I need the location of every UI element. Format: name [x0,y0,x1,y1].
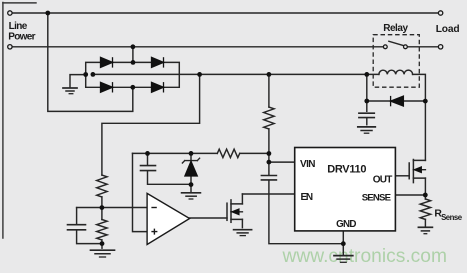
svg-text:GND: GND [336,219,356,230]
svg-text:VIN: VIN [300,159,316,170]
svg-text:DRV110: DRV110 [327,163,366,175]
svg-text:EN: EN [301,192,314,203]
svg-text:Line: Line [9,21,28,32]
svg-text:www.cntronics.com: www.cntronics.com [281,246,447,267]
svg-text:OUT: OUT [373,174,393,185]
svg-text:SENSE: SENSE [362,193,392,204]
svg-text:Power: Power [8,32,35,43]
svg-text:Sense: Sense [441,213,463,222]
svg-text:Load: Load [436,24,460,35]
svg-text:Relay: Relay [383,23,408,34]
